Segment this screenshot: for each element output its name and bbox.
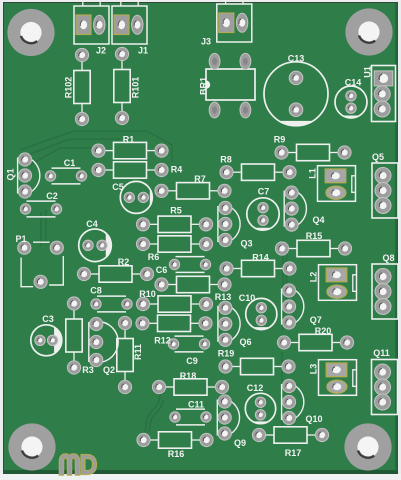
connector J1: [112, 1, 147, 44]
resistor R8: [227, 164, 290, 180]
wire trace right column 2: [281, 352, 283, 430]
svg-text:Q11: Q11: [373, 348, 390, 358]
connector J2: [74, 1, 109, 44]
resistor R15: [282, 240, 345, 256]
svg-text:C2: C2: [46, 191, 58, 201]
svg-text:L2: L2: [309, 272, 319, 283]
svg-text:C6: C6: [156, 265, 168, 275]
capacitor C11: [176, 409, 205, 425]
inductor L1: [318, 166, 356, 202]
svg-text:R4: R4: [171, 165, 183, 175]
transistor Q9: [217, 399, 239, 436]
svg-text:C8: C8: [90, 286, 102, 296]
svg-text:Q8: Q8: [382, 253, 394, 263]
svg-text:C1: C1: [64, 158, 76, 168]
svg-text:R16: R16: [168, 449, 185, 459]
svg-text:Q2: Q2: [103, 365, 115, 375]
resistor R102: [74, 55, 90, 119]
svg-text:C3: C3: [42, 314, 54, 324]
resistor R18: [159, 379, 222, 395]
resistor R6: [143, 236, 206, 252]
svg-text:L1: L1: [308, 168, 318, 179]
svg-text:Q4: Q4: [312, 215, 324, 225]
svg-text:C4: C4: [86, 219, 98, 229]
connector Q5: [372, 163, 398, 218]
svg-text:R18: R18: [180, 371, 197, 381]
resistor R2: [84, 266, 147, 282]
inductor L2: [319, 265, 357, 301]
svg-text:R7: R7: [194, 174, 206, 184]
svg-text:R15: R15: [306, 231, 323, 241]
resistor R16: [144, 432, 207, 448]
svg-text:R9: R9: [274, 135, 286, 145]
mounting hole bottom-right: [344, 423, 391, 470]
resistor R19: [226, 358, 289, 374]
svg-text:C5: C5: [112, 182, 124, 192]
svg-text:R17: R17: [285, 448, 302, 458]
svg-text:J2: J2: [96, 46, 106, 56]
svg-text:R1: R1: [123, 135, 135, 145]
svg-text:BR1: BR1: [199, 77, 209, 95]
resistor R7: [162, 183, 225, 199]
svg-text:R19: R19: [218, 349, 235, 359]
svg-text:R2: R2: [118, 257, 130, 267]
transistor Q1: [18, 157, 40, 194]
capacitor C14: [335, 86, 367, 118]
wire trace bundle top-left: [20, 131, 287, 432]
mounting hole top-right: [345, 8, 392, 55]
svg-text:R11: R11: [133, 344, 143, 360]
svg-text:J3: J3: [201, 37, 211, 47]
svg-text:C10: C10: [239, 293, 256, 303]
svg-text:C9: C9: [186, 356, 198, 366]
wire trace right column 1: [282, 240, 284, 330]
connector Q11: [372, 360, 398, 415]
connector U1: [372, 66, 396, 122]
svg-text:R8: R8: [220, 155, 232, 165]
svg-text:Q9: Q9: [234, 438, 246, 448]
resistor R3: [66, 304, 82, 368]
resistor R4: [99, 162, 162, 178]
resistor R12: [143, 315, 206, 331]
svg-text:R6: R6: [148, 252, 160, 262]
resistor R14: [227, 260, 290, 276]
svg-text:R20: R20: [315, 326, 332, 336]
resistor R101: [114, 54, 130, 118]
svg-text:C12: C12: [247, 383, 264, 393]
capacitor C5: [120, 181, 152, 213]
svg-text:R10: R10: [139, 289, 156, 299]
resistor R17: [259, 427, 322, 443]
inductor L3: [319, 360, 357, 396]
svg-text:C14: C14: [345, 78, 362, 88]
svg-text:R13: R13: [215, 292, 232, 302]
transistor Q7: [282, 288, 304, 325]
svg-text:Q6: Q6: [239, 337, 251, 347]
resistor R1: [99, 142, 162, 158]
transistor Q2: [89, 322, 118, 363]
svg-text:R5: R5: [170, 206, 182, 216]
svg-text:C13: C13: [288, 54, 305, 64]
svg-text:R101: R101: [131, 77, 141, 99]
wire trace R18 to R16: [145, 393, 160, 432]
capacitor C7: [247, 198, 279, 230]
logo mD: [62, 456, 95, 473]
capacitor C6: [176, 257, 205, 273]
svg-text:J1: J1: [138, 46, 148, 56]
svg-text:C7: C7: [258, 187, 270, 197]
resistor R5: [143, 216, 206, 232]
connector Q8: [372, 264, 398, 319]
svg-text:R3: R3: [82, 365, 94, 375]
svg-text:Q1: Q1: [6, 168, 16, 180]
svg-text:Q10: Q10: [305, 414, 322, 424]
svg-text:L3: L3: [309, 364, 319, 375]
capacitor C4: [79, 229, 112, 262]
capacitor C13: [264, 62, 328, 126]
resistor R20: [284, 334, 347, 350]
capacitor C12: [245, 393, 275, 423]
capacitor C1: [52, 168, 81, 184]
capacitor C8: [97, 296, 126, 312]
resistor R13: [162, 276, 225, 292]
svg-text:Q3: Q3: [240, 239, 252, 249]
wire traces P1 to C2: [40, 212, 42, 246]
svg-text:P1: P1: [15, 234, 26, 244]
svg-text:U1: U1: [363, 66, 373, 78]
transistor Q4: [284, 190, 306, 227]
svg-text:C11: C11: [188, 400, 204, 410]
resistor R10: [143, 296, 206, 312]
wire trace mid diagonal: [149, 400, 163, 432]
transistor Q10: [282, 384, 304, 421]
capacitor C2: [27, 201, 56, 217]
capacitor C9: [175, 336, 204, 352]
svg-text:Q7: Q7: [310, 315, 322, 325]
transistor Q3: [218, 206, 240, 243]
resistor R9: [282, 144, 345, 160]
mounting hole bottom-left: [8, 423, 55, 470]
svg-text:R14: R14: [252, 253, 269, 263]
trimmer P1: [21, 242, 63, 287]
connector J3: [217, 0, 252, 42]
bridge rectifier BR1: [206, 69, 255, 100]
svg-text:Q5: Q5: [372, 152, 384, 162]
svg-text:R12: R12: [154, 336, 171, 346]
mounting hole top-left: [7, 9, 54, 56]
capacitor C3: [31, 325, 62, 356]
capacitor C10: [246, 298, 277, 329]
transistor Q6: [218, 305, 240, 342]
svg-text:R102: R102: [64, 77, 74, 99]
resistor R11: [117, 323, 133, 387]
